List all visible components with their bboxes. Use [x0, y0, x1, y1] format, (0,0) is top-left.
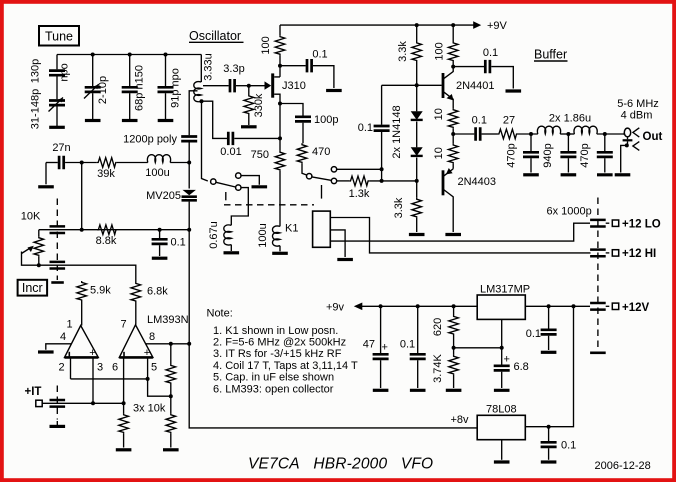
svg-text:8.8k: 8.8k — [96, 235, 117, 247]
svg-text:0.1: 0.1 — [312, 49, 327, 61]
svg-text:6.8k: 6.8k — [147, 286, 168, 298]
svg-text:6.8: 6.8 — [514, 361, 529, 373]
svg-text:+12V: +12V — [622, 302, 650, 314]
svg-text:6: 6 — [112, 362, 118, 374]
svg-text:3.3k: 3.3k — [397, 41, 409, 62]
svg-text:2N4403: 2N4403 — [458, 176, 497, 188]
svg-text:39k: 39k — [97, 168, 115, 180]
svg-text:0.01: 0.01 — [220, 146, 241, 158]
svg-text:+: + — [504, 354, 510, 366]
svg-text:620: 620 — [432, 318, 444, 336]
svg-text:0.1: 0.1 — [171, 236, 186, 248]
svg-text:2: 2 — [58, 362, 64, 374]
svg-text:470p: 470p — [579, 143, 591, 167]
svg-text:5.9k: 5.9k — [90, 285, 111, 297]
svg-text:2x 1N4148: 2x 1N4148 — [391, 105, 403, 158]
svg-text:3: 3 — [97, 362, 103, 374]
svg-text:31-148p: 31-148p — [30, 89, 42, 129]
svg-text:3x 10k: 3x 10k — [133, 403, 166, 415]
svg-text:100: 100 — [434, 42, 446, 60]
svg-text:0.67u: 0.67u — [208, 221, 220, 249]
svg-text:3. IT Rs for -3/+15 kHz RF: 3. IT Rs for -3/+15 kHz RF — [213, 348, 342, 360]
svg-text:4: 4 — [60, 331, 66, 343]
svg-text:10: 10 — [433, 108, 445, 120]
svg-text:3.3k: 3.3k — [393, 197, 405, 218]
svg-text:7: 7 — [120, 319, 126, 331]
svg-text:+9V: +9V — [487, 20, 508, 32]
svg-text:+IT: +IT — [25, 386, 42, 398]
svg-text:100u: 100u — [145, 167, 169, 179]
svg-text:1.3k: 1.3k — [349, 188, 370, 200]
svg-text:27: 27 — [503, 115, 515, 127]
svg-text:78L08: 78L08 — [486, 404, 517, 416]
svg-text:2-10p: 2-10p — [97, 76, 109, 104]
svg-text:5: 5 — [151, 362, 157, 374]
svg-text:VE7CA HBR-2000 VFO: VE7CA HBR-2000 VFO — [248, 456, 433, 473]
svg-text:100u: 100u — [257, 223, 269, 247]
svg-text:2x 1.86u: 2x 1.86u — [549, 113, 591, 125]
svg-text:0.1: 0.1 — [472, 115, 487, 127]
svg-text:npo: npo — [59, 63, 71, 81]
svg-text:100: 100 — [260, 36, 272, 54]
svg-text:4 dBm: 4 dBm — [621, 110, 653, 122]
svg-text:Incr: Incr — [22, 281, 43, 295]
svg-text:+8v: +8v — [451, 414, 470, 426]
svg-text:3.33u: 3.33u — [203, 53, 215, 81]
svg-text:47: 47 — [363, 339, 375, 351]
svg-text:130p: 130p — [30, 59, 42, 83]
svg-text:6. LM393: open collector: 6. LM393: open collector — [213, 383, 334, 395]
svg-text:0.1: 0.1 — [526, 328, 541, 340]
svg-text:MV205: MV205 — [146, 190, 181, 202]
svg-text:1200p poly: 1200p poly — [123, 134, 177, 146]
svg-text:Note:: Note: — [207, 308, 233, 320]
svg-text:3.3p: 3.3p — [223, 63, 244, 75]
svg-text:470: 470 — [312, 146, 330, 158]
svg-text:Oscillator: Oscillator — [189, 29, 241, 43]
svg-text:100p: 100p — [314, 114, 338, 126]
svg-text:3.74K: 3.74K — [432, 353, 444, 382]
svg-text:2N4401: 2N4401 — [456, 80, 495, 92]
svg-text:1: 1 — [66, 319, 72, 331]
svg-text:Buffer: Buffer — [534, 48, 567, 62]
svg-text:68p n150: 68p n150 — [134, 65, 146, 111]
svg-text:27n: 27n — [52, 142, 70, 154]
svg-text:5. Cap. in uF else shown: 5. Cap. in uF else shown — [213, 372, 334, 384]
svg-text:8: 8 — [149, 331, 155, 343]
svg-text:940p: 940p — [542, 143, 554, 167]
svg-text:470p: 470p — [506, 143, 518, 167]
svg-text:Out: Out — [643, 131, 663, 143]
svg-text:4. Coil 17 T, Taps at 3,11,14: 4. Coil 17 T, Taps at 3,11,14 T — [213, 360, 358, 372]
svg-text:+: + — [89, 347, 95, 359]
svg-text:0.1: 0.1 — [400, 339, 415, 351]
svg-text:Tune: Tune — [45, 30, 73, 44]
svg-text:330k: 330k — [253, 93, 265, 117]
svg-text:J310: J310 — [282, 80, 306, 92]
svg-text:0.1: 0.1 — [561, 440, 576, 452]
svg-text:K1: K1 — [285, 223, 298, 235]
svg-text:+12 LO: +12 LO — [622, 219, 661, 231]
svg-text:2006-12-28: 2006-12-28 — [595, 460, 651, 472]
svg-text:91p npo: 91p npo — [170, 68, 182, 108]
svg-text:10: 10 — [433, 147, 445, 159]
svg-text:LM393N: LM393N — [147, 314, 189, 326]
svg-text:2. F=5-6 MHz @2x 500kHz: 2. F=5-6 MHz @2x 500kHz — [213, 337, 346, 349]
svg-text:+: + — [144, 347, 150, 359]
svg-text:+: + — [382, 342, 388, 354]
svg-text:LM317MP: LM317MP — [480, 284, 530, 296]
svg-text:0.1: 0.1 — [483, 47, 498, 59]
svg-text:10K: 10K — [21, 211, 41, 223]
svg-text:+9v: +9v — [326, 302, 345, 314]
svg-text:0.1: 0.1 — [358, 122, 373, 134]
svg-text:6x 1000p: 6x 1000p — [547, 206, 592, 218]
svg-text:1. K1 shown in Low posn.: 1. K1 shown in Low posn. — [213, 325, 338, 337]
svg-text:750: 750 — [251, 149, 269, 161]
svg-text:+12 HI: +12 HI — [622, 248, 656, 260]
svg-text:5-6 MHz: 5-6 MHz — [617, 98, 659, 110]
